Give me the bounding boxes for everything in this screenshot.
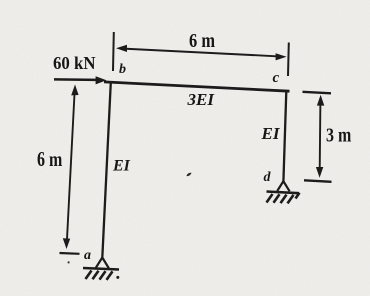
svg-text:6 m: 6 m xyxy=(37,147,63,171)
force 60 kN arrow xyxy=(54,76,107,84)
svg-text:d: d xyxy=(264,170,272,185)
right dimension line 3 m xyxy=(316,95,324,178)
svg-text:a: a xyxy=(84,248,91,263)
beam b-c (member 3EI) xyxy=(104,82,290,91)
svg-text:3EI: 3EI xyxy=(187,90,216,109)
left dimension line 6 m xyxy=(63,85,79,250)
pin support at d xyxy=(267,181,300,193)
svg-text:c: c xyxy=(273,70,280,86)
stray dot below tick near a xyxy=(68,261,70,263)
left dimension bottom tick xyxy=(60,252,80,255)
svg-text:b: b xyxy=(119,62,126,77)
top dimension extension line above c xyxy=(287,43,290,77)
hatching at d xyxy=(267,193,300,204)
right column c-d (member EI) xyxy=(283,91,286,182)
right dimension bottom tick xyxy=(304,180,332,182)
left column a-b (member EI) xyxy=(102,82,111,257)
svg-text:EI: EI xyxy=(261,124,281,143)
right dimension top tick xyxy=(303,92,332,94)
hatching at a xyxy=(86,271,120,280)
top dimension extension line above b xyxy=(112,32,115,71)
stray ink speck near centre xyxy=(187,173,192,177)
top dimension line 6 m xyxy=(116,45,287,61)
pin support at a xyxy=(83,258,119,270)
svg-text:EI: EI xyxy=(112,158,131,175)
svg-text:60 kN: 60 kN xyxy=(53,53,96,73)
svg-text:6 m: 6 m xyxy=(189,30,215,52)
svg-text:3 m: 3 m xyxy=(326,125,352,147)
